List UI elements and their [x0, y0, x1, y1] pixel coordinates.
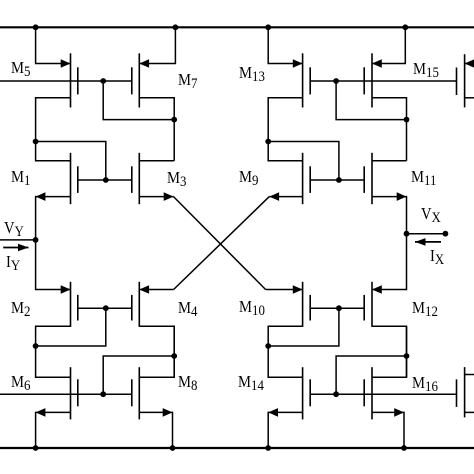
node M13-M15 gate junction [333, 78, 339, 84]
label M11 [411, 168, 436, 189]
wire M9 drain [268, 142, 302, 161]
wire M15 drain [372, 27, 405, 63]
transistor M15 [371, 53, 373, 107]
wire edge device lower [465, 411, 474, 413]
label IX [430, 247, 444, 268]
label M1 [11, 168, 30, 189]
node M5-M1 junction [33, 139, 39, 145]
label M9 [239, 168, 258, 189]
label M14 [238, 373, 264, 394]
transistor M15 arrow [372, 59, 382, 68]
node Y [33, 237, 39, 243]
transistor M1 [70, 153, 72, 204]
wire M14-M16 gate line [310, 393, 456, 395]
wire M7 source [139, 98, 174, 120]
wire edge device upper [465, 374, 474, 376]
label VY [4, 219, 24, 240]
wire edge device source [465, 97, 474, 99]
wire M4-M8 link [173, 326, 175, 377]
wire M1-M3 gate line [78, 179, 132, 181]
transistor M16 arrow [394, 408, 404, 417]
transistor M7 arrow [139, 59, 149, 68]
node M5-M7 gate junction [100, 78, 106, 84]
wire M10 gate-source tie [268, 308, 339, 346]
transistor M13 arrow [293, 59, 303, 68]
label M16 [412, 374, 438, 395]
transistor M8 arrow [163, 408, 173, 417]
transistor M14 arrow [268, 408, 278, 417]
node M10-M12 gate junction [336, 305, 342, 311]
wire M5 drain [36, 27, 71, 63]
label M15 [413, 60, 439, 81]
label M2 [11, 299, 30, 320]
node VSS-M6 junction [33, 445, 39, 451]
label M8 [178, 373, 197, 394]
wire VDD rail [0, 26, 474, 28]
wire M11 source [372, 197, 407, 234]
wire M14 source [268, 412, 302, 448]
wire M7 gate-drain tie [103, 81, 174, 120]
transistor M14 [302, 367, 304, 419]
node M7 tie junction [171, 117, 177, 123]
wire M9-M11 gate line [310, 179, 364, 181]
wire M2 source [36, 326, 71, 346]
wire M15 source [372, 98, 407, 120]
transistor edge-top [464, 54, 466, 107]
wire M7 drain [139, 27, 175, 63]
wire M2 gate-source tie [36, 308, 106, 346]
wire Y terminal [0, 239, 36, 241]
wire M3-M10 cross link [174, 197, 266, 290]
wire M14 drain [268, 346, 302, 377]
wire M16 gate-drain tie [336, 356, 406, 394]
transistor edge-bottom [464, 367, 466, 417]
label M7 [178, 71, 197, 92]
wire M1 gate-drain tie [36, 142, 106, 181]
transistor M8 [138, 367, 140, 419]
node VDD-M13 junction [265, 24, 271, 30]
node VDD-M5 junction [33, 24, 39, 30]
transistor M7 [138, 53, 140, 107]
transistor M12 [371, 282, 373, 327]
transistor M9 arrow [269, 192, 279, 201]
wire M11 drain [372, 160, 407, 162]
label M6 [11, 373, 30, 394]
wire M13 source [268, 98, 302, 142]
node M15 tie junction [404, 117, 410, 123]
wire M9 source [269, 196, 302, 198]
transistor M3 arrow [164, 192, 174, 201]
wire M4 source [139, 326, 174, 356]
transistor M11 [371, 153, 373, 204]
wire M9 gate-drain tie [268, 142, 339, 181]
wire VSS rail [0, 447, 474, 449]
wire M15-M11 link [406, 120, 408, 161]
wire M9-M4 cross link [174, 197, 270, 290]
transistor M4 [138, 282, 140, 327]
wire M10-M12 gate line [310, 307, 364, 309]
wire M6-M8 gate line [0, 393, 132, 395]
wire M12-M16 link [406, 326, 408, 377]
wire M10 source [268, 326, 302, 346]
transistor M6 arrow [36, 408, 46, 417]
node X terminal end [443, 231, 449, 237]
wire M6 drain [36, 346, 71, 377]
wire M12 drain [372, 234, 407, 290]
wire M2 drain [36, 240, 71, 290]
wire M13 drain [268, 27, 302, 63]
label M4 [178, 299, 197, 320]
wire X terminal [407, 233, 446, 235]
node M6-M8 gate junction [100, 391, 106, 397]
wire edge device drain [465, 63, 474, 65]
wire M16 drain upper [372, 356, 407, 377]
wire M16 source [372, 412, 404, 448]
wire M13-M15 gate line [310, 80, 456, 82]
transistor M4 arrow [139, 285, 149, 294]
node M4-M8 tie junction [171, 353, 177, 359]
wire IY arrowhead [18, 244, 29, 252]
wire M3 source [139, 196, 173, 198]
wire IX arrow line [415, 241, 441, 243]
label M10 [239, 298, 265, 319]
wire IY arrow line [3, 247, 28, 249]
transistor M2 [70, 282, 72, 327]
label M3 [167, 169, 186, 190]
wire M5-M7 gate line [0, 80, 132, 82]
wire IX arrowhead [415, 238, 426, 246]
node VSS-M16 junction [401, 445, 407, 451]
transistor M5 arrow [61, 59, 71, 68]
transistor M11 arrow [397, 192, 407, 201]
transistor M5 [70, 53, 72, 107]
wire M15 gate-drain tie [336, 81, 406, 120]
node M2-M4 gate junction [103, 305, 109, 311]
node M1-M3 gate junction [103, 177, 109, 183]
node X [404, 231, 410, 237]
label IY [6, 253, 20, 274]
wire M8 gate-drain tie [103, 356, 174, 394]
transistor M6 [70, 367, 72, 419]
node VSS-M14 junction [265, 445, 271, 451]
node VDD-M7 junction [173, 24, 179, 30]
node M9-M11 gate junction [336, 177, 342, 183]
wire M8 drain upper [139, 356, 174, 377]
node VSS-M8 junction [170, 445, 176, 451]
wire M10 drain [266, 289, 303, 291]
transistor M3 [138, 153, 140, 204]
wire M4 drain [139, 289, 173, 291]
node M14-M16 gate junction [333, 391, 339, 397]
wire M2-M4 gate line [78, 307, 132, 309]
node M2-M6 junction [33, 343, 39, 349]
node M13-M9 junction [265, 139, 271, 145]
transistor M10 [302, 282, 304, 327]
transistor M12 arrow [372, 285, 382, 294]
label M12 [412, 299, 438, 320]
transistor M13 [302, 53, 304, 107]
node M10-M14 junction [265, 343, 271, 349]
node M12-M16 tie junction [404, 353, 410, 359]
label M13 [239, 64, 265, 85]
wire M1 drain [36, 142, 71, 161]
transistor M16 [371, 367, 373, 419]
transistor M1 arrow [36, 192, 46, 201]
wire M8 source [139, 412, 172, 448]
transistor edge-top arrow [465, 59, 474, 68]
transistor M9 [302, 153, 304, 204]
wire M5 source [36, 98, 71, 142]
label VX [421, 205, 441, 226]
transistor M2 arrow [61, 285, 71, 294]
wire M1 source [36, 197, 71, 240]
wire M7-M3 link [173, 120, 175, 161]
wire M12 source [372, 326, 407, 356]
wire M3 drain [139, 160, 174, 162]
node VDD-M15 junction [402, 24, 408, 30]
label M5 [11, 59, 30, 80]
transistor M10 arrow [293, 285, 303, 294]
wire M6 source [36, 412, 71, 448]
